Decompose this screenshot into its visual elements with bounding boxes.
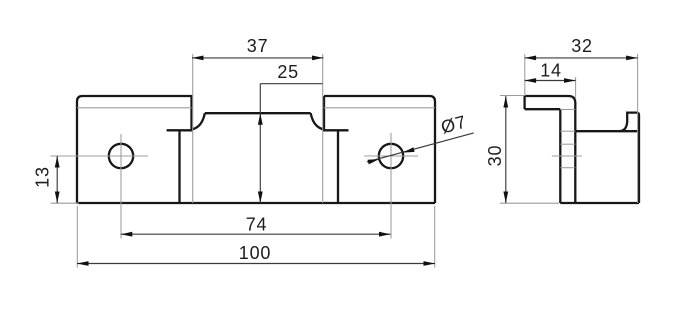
svg-text:100: 100 (239, 243, 271, 263)
svg-text:25: 25 (277, 62, 299, 82)
svg-text:14: 14 (540, 60, 562, 80)
svg-text:37: 37 (247, 36, 269, 56)
svg-text:32: 32 (571, 36, 593, 56)
svg-text:30: 30 (485, 145, 505, 167)
svg-text:74: 74 (246, 214, 268, 234)
svg-text:13: 13 (33, 166, 53, 188)
